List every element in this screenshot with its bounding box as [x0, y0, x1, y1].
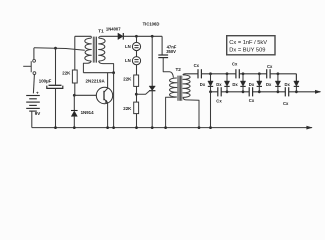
wire battery - down: [31, 111, 33, 127]
transformer T1 primary coil: [85, 38, 92, 61]
wire col5 diode bottom: [277, 87, 279, 92]
wire SCR cathode to ground: [151, 91, 153, 128]
diode Dx6: [294, 81, 299, 86]
svg-text:Dx: Dx: [232, 82, 238, 87]
wire lamp1 to lamp2: [136, 51, 138, 57]
wire R1 to base node: [74, 83, 76, 95]
wire base node down to D2: [73, 95, 75, 110]
wire down to C1: [55, 48, 57, 85]
node gate junction: [135, 93, 138, 96]
node base junction: [73, 94, 76, 97]
wire C2 to T2 primary: [163, 58, 173, 78]
svg-text:Cx: Cx: [249, 98, 255, 103]
node T2 primary ground junction: [164, 126, 167, 129]
svg-text:Dx: Dx: [200, 82, 206, 87]
diode D1 1N4007: [118, 33, 123, 40]
resistor R3 22K: [134, 102, 139, 114]
diode Dx1: [208, 81, 213, 86]
capacitor Cx top 1: [197, 69, 199, 78]
svg-text:LN: LN: [125, 44, 131, 49]
capacitor Cx bottom 3: [284, 87, 286, 96]
svg-text:Cx: Cx: [267, 64, 273, 69]
node emitter ground junction: [106, 126, 109, 129]
wire T1 bottom to collector node: [83, 72, 113, 74]
node SCR ground junction: [151, 126, 154, 129]
svg-text:Dx = BUY 509: Dx = BUY 509: [229, 47, 265, 53]
thyristor U1 TIC106D: [149, 86, 155, 91]
svg-text:350V: 350V: [166, 49, 176, 54]
wire col2 diode top: [226, 74, 228, 81]
svg-text:100µF: 100µF: [39, 78, 52, 83]
node top rail col3: [242, 72, 245, 75]
node bottom rail col1: [209, 90, 212, 93]
note box component values: [227, 36, 275, 55]
svg-text:1N914: 1N914: [81, 110, 94, 115]
resistor R1 22K: [72, 70, 77, 83]
wire base junction to Q1 base: [74, 94, 96, 96]
capacitor Cx top 2: [235, 69, 237, 78]
node lamp chain tap: [135, 35, 138, 38]
transistor Q1 2N2219A NPN: [96, 87, 112, 103]
node bottom rail col2: [226, 90, 229, 93]
node multiplier ground junction: [209, 126, 212, 129]
arrow output bottom rail: [306, 126, 312, 130]
T1 core: [92, 37, 94, 63]
wire to T1 primary top: [75, 35, 92, 37]
wire corner down to C2: [161, 36, 163, 55]
wire to lamp1: [136, 36, 138, 42]
node bottom rail col3: [242, 90, 245, 93]
svg-text:1N4007: 1N4007: [106, 27, 121, 32]
T2 primary bottom lead: [166, 97, 177, 128]
battery BT1 9V: [26, 95, 40, 97]
wire D2 to ground rail: [73, 116, 75, 127]
wire D1 to C2 corner: [123, 35, 162, 37]
node D2 ground junction: [73, 126, 76, 129]
lamp LN2: [132, 57, 140, 65]
diode Dx3: [240, 81, 245, 86]
svg-text:+: +: [36, 91, 39, 96]
node junction 100uF tap: [54, 47, 57, 50]
svg-text:22K: 22K: [123, 76, 132, 81]
wire col2 diode bottom: [226, 87, 228, 92]
T1 primary bottom lead: [83, 61, 91, 73]
wire multiplier bottom rail: [211, 91, 321, 93]
node T2 secondary ground junction: [198, 126, 201, 129]
svg-text:T1: T1: [98, 28, 104, 33]
wire col3 diode top: [242, 74, 244, 81]
T1 secondary top lead: [99, 36, 101, 38]
node top rail col4: [258, 72, 261, 75]
transformer T2 primary coil: [170, 78, 177, 97]
T1 secondary coil: [99, 38, 106, 61]
wire col4 diode bottom: [258, 87, 260, 92]
diode Dx5: [275, 81, 280, 86]
node bottom rail col4: [258, 90, 261, 93]
wire R3 to ground rail: [136, 114, 138, 128]
svg-text:9V: 9V: [35, 111, 41, 116]
wire col6 diode top: [295, 74, 297, 81]
wire col1 diode bottom: [210, 87, 212, 92]
arrow output multiplier rail: [315, 90, 321, 94]
wire Q1 emitter to ground: [107, 103, 109, 127]
diode D2 1N914 cathode up: [71, 110, 78, 112]
wire T1 secondary to D1: [100, 35, 118, 37]
capacitor C2 47nF 350V: [158, 54, 168, 56]
wire col1 diode top: [210, 74, 212, 81]
node C1 ground junction: [54, 126, 57, 129]
wire multiplier ground column: [210, 92, 212, 128]
node SCR anode tap: [151, 35, 154, 38]
T2 secondary top lead: [183, 74, 187, 75]
diode Dx2: [224, 81, 229, 86]
svg-text:Cx: Cx: [283, 101, 289, 106]
diode Dx4: [257, 81, 262, 86]
node top rail col2: [226, 72, 229, 75]
node bottom rail col5: [277, 90, 280, 93]
svg-text:22K: 22K: [123, 106, 132, 111]
wire multiplier top rail: [187, 73, 296, 75]
wire return down to ground rail: [113, 73, 115, 128]
node top rail col1: [209, 72, 212, 75]
switch S1 push-button: [33, 59, 36, 62]
resistor R2 22K: [134, 75, 139, 86]
node top rail col5: [277, 72, 280, 75]
svg-text:Dx: Dx: [216, 82, 222, 87]
svg-text:Cx: Cx: [216, 99, 222, 104]
wire corner down to switch: [33, 48, 35, 59]
wire col3 diode bottom: [242, 87, 244, 92]
transformer T2 secondary coil: [183, 75, 190, 98]
svg-text:TIC106D: TIC106D: [143, 22, 160, 27]
node collector/secondary return: [112, 71, 115, 74]
svg-text:Dx: Dx: [249, 82, 255, 87]
wire top rail corner down to Dx6: [295, 74, 297, 81]
capacitor Cx bottom 1: [217, 87, 219, 96]
svg-text:Cx: Cx: [194, 63, 200, 68]
svg-text:2N2219A: 2N2219A: [86, 78, 106, 83]
svg-text:LN: LN: [125, 58, 131, 63]
node return ground junction: [112, 126, 115, 129]
svg-text:Cx = 1nF / 5kV: Cx = 1nF / 5kV: [229, 40, 267, 46]
wire C1 to ground rail: [55, 89, 57, 128]
lamp LN1: [132, 42, 140, 50]
wire SCR anode: [151, 36, 153, 86]
wire T1 top / R1 feed (crosses rail): [74, 36, 76, 70]
node R3 ground junction: [135, 126, 138, 129]
node bottom rail col6: [295, 90, 298, 93]
svg-text:22K: 22K: [62, 71, 71, 76]
capacitor Cx bottom 2: [248, 87, 250, 96]
wire col4 diode top: [258, 74, 260, 81]
svg-text:Dx: Dx: [266, 82, 272, 87]
svg-text:Cx: Cx: [232, 62, 238, 67]
wire gate junction to SCR gate: [136, 91, 149, 94]
svg-text:T2: T2: [176, 67, 182, 72]
capacitor Cx top 3: [266, 69, 268, 78]
wire main ground rail: [32, 127, 312, 129]
wire Q1 collector up: [107, 73, 109, 88]
wire R2 to R3: [136, 86, 138, 102]
wire lamp2 to R2: [136, 65, 138, 75]
wire switch to battery +: [33, 75, 34, 94]
wire +9V rail to T1 primary tap: [34, 48, 85, 51]
T2 core: [177, 76, 179, 101]
wire col6 diode bottom: [295, 87, 297, 92]
wire col5 diode top: [277, 74, 279, 81]
capacitor C1 100uF electrolytic: [49, 84, 62, 86]
T1 secondary bottom lead: [99, 61, 114, 73]
svg-text:Dx: Dx: [285, 82, 291, 87]
T2 secondary bottom lead: [183, 97, 199, 127]
